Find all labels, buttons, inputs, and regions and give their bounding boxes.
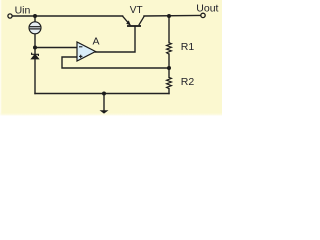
wire top rail left segment (12, 15, 122, 17)
op-amp U1 (77, 42, 96, 61)
wire zener anode to bottom rail (34, 59, 36, 94)
wire op-amp noninverting input feedback (62, 57, 169, 68)
terminal Uout (201, 13, 205, 17)
svg-text:Uout: Uout (196, 3, 218, 15)
resistor R2 (167, 77, 172, 88)
transistor VT (123, 16, 145, 26)
wire node A to zener cathode (34, 48, 36, 55)
node A junction dot (rail / current source) (33, 14, 37, 18)
ground (100, 110, 109, 113)
wire op-amp output to transistor base (96, 27, 136, 53)
wire top rail right segment (144, 14, 201, 17)
wire R1 top lead (168, 16, 170, 43)
resistor R1 (167, 43, 172, 54)
node junction dot (zener / op-amp input) (33, 46, 37, 50)
svg-text:Uin: Uin (15, 4, 31, 16)
zener diode VD (32, 53, 39, 59)
svg-text:VT: VT (130, 5, 143, 16)
wire R1 bottom lead (168, 54, 170, 68)
svg-text:A: A (93, 36, 100, 48)
current source G1 (29, 22, 41, 34)
wire current source to node A (34, 34, 36, 48)
node junction dot (divider tap) (167, 66, 171, 70)
node junction dot (ground) (102, 92, 106, 96)
svg-text:R1: R1 (181, 41, 195, 53)
wire current source top lead (34, 16, 36, 22)
svg-text:R2: R2 (181, 76, 195, 88)
wire bottom rail (35, 93, 169, 95)
node junction dot (rail / R1) (167, 14, 171, 18)
terminal Uin (8, 14, 12, 18)
wire node A to op-amp inverting input (35, 47, 77, 49)
wire ground stub (103, 94, 105, 111)
wire R2 bottom lead (168, 89, 170, 94)
wire R2 top lead (168, 68, 170, 77)
